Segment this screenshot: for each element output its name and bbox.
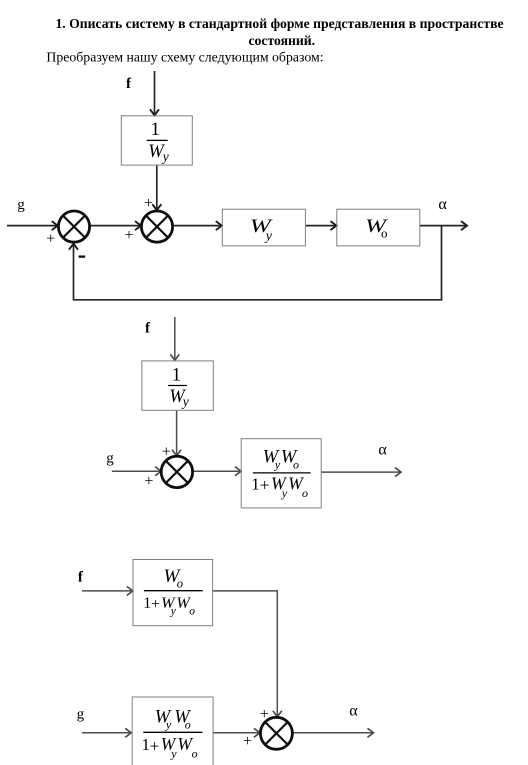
svg-text:g: g (17, 197, 25, 213)
svg-text:1. Описать систему в стандартн: 1. Описать систему в стандартной форме п… (55, 16, 503, 31)
svg-text:y: y (281, 486, 288, 500)
svg-text:α: α (378, 442, 387, 459)
svg-text:g: g (77, 707, 85, 723)
svg-text:α: α (349, 703, 358, 720)
svg-text:1: 1 (151, 119, 161, 140)
svg-text:o: o (302, 486, 308, 500)
svg-text:o: o (192, 747, 198, 761)
svg-text:o: o (185, 717, 191, 731)
svg-text:+: + (144, 473, 153, 490)
svg-text:1: 1 (251, 474, 260, 493)
svg-text:+: + (46, 231, 55, 248)
svg-text:+: + (151, 596, 160, 613)
svg-text:Преобразуем нашу схему следующ: Преобразуем нашу схему следующим образом… (46, 49, 323, 64)
svg-text:f: f (78, 570, 84, 586)
svg-text:1: 1 (172, 364, 182, 385)
svg-text:состояний.: состояний. (248, 33, 315, 48)
svg-text:y: y (161, 149, 169, 164)
svg-text:o: o (293, 457, 299, 471)
svg-text:y: y (165, 717, 172, 731)
svg-text:y: y (274, 457, 281, 471)
svg-text:+: + (144, 195, 153, 212)
svg-text:+: + (124, 227, 133, 244)
svg-text:+: + (150, 736, 160, 755)
svg-text:f: f (126, 76, 132, 92)
svg-text:o: o (381, 225, 388, 240)
svg-text:y: y (170, 747, 177, 761)
svg-text:+: + (260, 476, 270, 495)
svg-text:y: y (264, 229, 273, 244)
svg-text:+: + (260, 706, 269, 723)
svg-text:y: y (181, 394, 189, 409)
svg-text:f: f (145, 321, 151, 337)
svg-text:o: o (189, 606, 195, 618)
svg-text:o: o (177, 577, 183, 591)
svg-text:+: + (243, 733, 252, 750)
svg-text:+: + (162, 444, 171, 461)
svg-text:g: g (106, 450, 114, 466)
svg-text:α: α (438, 196, 447, 213)
